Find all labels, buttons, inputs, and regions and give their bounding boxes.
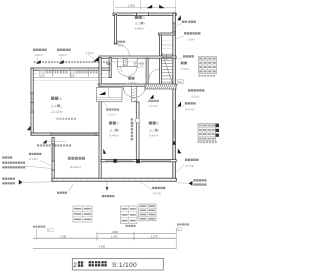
svg-text:W913: W913 xyxy=(117,44,124,47)
svg-text:1.140: 1.140 xyxy=(60,234,67,238)
arrow right parapet xyxy=(178,148,182,153)
annotation: parapet wall right bottom xyxy=(189,181,193,186)
legend table bottom-center xyxy=(121,206,138,224)
stair treads xyxy=(161,53,173,55)
svg-text:R:1700: R:1700 xyxy=(29,158,38,161)
wall: stair west xyxy=(159,35,161,85)
balcony drain leader left xyxy=(68,184,73,191)
annotation: wall type left bottom xyxy=(2,178,4,180)
wall: room D west xyxy=(115,15,117,45)
wall: hall south / rooms C-B north xyxy=(99,84,176,86)
leader arrow 1 xyxy=(36,60,41,64)
wall: divider rooms C/B xyxy=(136,102,139,162)
svg-text:4.100: 4.100 xyxy=(99,244,106,248)
storage door arcs xyxy=(123,87,134,98)
balcony south parapet wall xyxy=(52,178,176,181)
svg-text:1.37m²: 1.37m² xyxy=(128,81,136,85)
room D label xyxy=(135,16,138,19)
leader arrow 2 xyxy=(59,60,64,64)
stair diagonal xyxy=(162,53,173,84)
svg-text:S:1/100: S:1/100 xyxy=(112,262,137,269)
top dimension arrow left xyxy=(147,5,152,9)
void label in plan xyxy=(148,100,150,102)
storage hatched strip xyxy=(123,59,127,66)
annotation: emergency entry 3 lines xyxy=(2,156,4,158)
closet label in C xyxy=(106,108,108,110)
dark cells right of lower table xyxy=(216,124,219,128)
bottom dim text left xyxy=(33,226,35,228)
stair up arrow line xyxy=(166,54,168,60)
caption under upper table xyxy=(199,75,201,77)
svg-text:): ) xyxy=(61,104,62,108)
wall: closet north (between D and closet) xyxy=(159,33,176,35)
svg-text:(5.2: (5.2 xyxy=(135,22,141,26)
wall: hall west stub xyxy=(109,58,111,78)
hatched wall band south of stairs xyxy=(145,84,176,89)
annotation: wooden rail xyxy=(183,55,185,57)
closet divider line xyxy=(161,44,173,46)
room A label xyxy=(51,97,54,100)
grid table lower right xyxy=(198,123,215,141)
stair closet shelf line xyxy=(162,40,174,42)
arrow near A south wall xyxy=(43,140,47,144)
stair closet hatched strip xyxy=(160,36,162,49)
annotation: sash R1700 right xyxy=(185,159,187,161)
svg-text:2: 2 xyxy=(73,262,77,269)
hanger pipe dashed line below closet xyxy=(34,79,98,81)
annotation: closet upper right xyxy=(184,32,186,34)
stair count box xyxy=(177,80,183,84)
D storage double door arcs xyxy=(118,67,128,77)
wall: room A south with window xyxy=(31,133,99,135)
top dimension arrow right xyxy=(159,5,164,9)
dimension line 1 xyxy=(33,237,176,239)
spec text row inside closet band xyxy=(46,71,48,73)
room C label xyxy=(109,121,112,124)
annotation: drain left xyxy=(57,192,59,194)
svg-text:1.820: 1.820 xyxy=(128,4,136,8)
balcony downpipe leader xyxy=(106,182,108,190)
closet label top-left 1 xyxy=(33,49,35,51)
extension line top-center xyxy=(140,0,142,10)
svg-text:1.82m²: 1.82m² xyxy=(35,53,43,57)
balcony label xyxy=(68,157,71,160)
door post marks room D west xyxy=(114,43,118,45)
svg-text:R:1700: R:1700 xyxy=(186,164,195,168)
circled mark on divider wall xyxy=(135,118,140,123)
closet band dividers xyxy=(52,68,54,77)
closet band bottom line xyxy=(33,76,109,78)
wall: monoiri east stub xyxy=(146,58,148,85)
svg-text:13R: 13R xyxy=(178,82,183,84)
title box xyxy=(72,258,163,270)
wall: right outer (east) xyxy=(173,13,175,181)
vertical tiny text along divider xyxy=(131,122,133,124)
svg-text:1.820: 1.820 xyxy=(112,230,119,234)
text right wall top dim xyxy=(198,141,200,143)
svg-text:1.36m²: 1.36m² xyxy=(187,37,195,41)
svg-text:5.46m²: 5.46m² xyxy=(86,51,95,55)
annotation: downpipe xyxy=(37,144,39,146)
closet label leader xyxy=(103,102,108,109)
annotation: downpipe bottom xyxy=(102,195,104,197)
hall tiny label xyxy=(107,63,109,65)
svg-text:(5.2: (5.2 xyxy=(149,129,154,133)
legend table bottom-right xyxy=(139,204,156,221)
vertical label on C/B divider xyxy=(131,118,133,120)
extension line top-right xyxy=(175,0,177,13)
leader arrow to hall wall xyxy=(93,57,99,62)
balcony west parapet wall xyxy=(52,137,54,181)
door arc into room D xyxy=(117,44,130,57)
storage shelf label in D xyxy=(117,41,119,43)
svg-text:): ) xyxy=(158,129,159,133)
annotation: handrail R1700 xyxy=(185,102,187,104)
text under center table xyxy=(126,225,128,227)
svg-text:(6.42m²): (6.42m²) xyxy=(70,165,81,169)
door arc hall to room A xyxy=(111,61,121,72)
svg-text:R=1700: R=1700 xyxy=(149,105,158,108)
svg-text:(5.2: (5.2 xyxy=(110,129,115,133)
svg-text:(7.4: (7.4 xyxy=(51,104,57,108)
svg-text:R:1700: R:1700 xyxy=(153,193,162,196)
legend table bottom-left xyxy=(73,206,92,222)
svg-text:): ) xyxy=(119,129,120,133)
storage stub wall hatched xyxy=(132,86,137,101)
closet label top-left 2 xyxy=(57,49,59,51)
door arc hall to stairs xyxy=(149,69,159,78)
svg-text:2.275: 2.275 xyxy=(151,235,158,239)
bottom dim text right xyxy=(177,223,179,225)
wall: room A west with window xyxy=(31,68,33,135)
section mark 9-9 xyxy=(134,62,137,65)
room B label xyxy=(149,121,152,124)
svg-text:1.82m²: 1.82m² xyxy=(59,53,67,57)
svg-text:8.48m²: 8.48m² xyxy=(110,134,119,138)
spec text row above C closet xyxy=(98,83,100,85)
wall: room D north (top) with windows xyxy=(113,13,176,15)
svg-text:6.62m²: 6.62m² xyxy=(191,95,199,99)
grid table upper right xyxy=(198,56,216,73)
extension line top-left of room D xyxy=(112,0,114,13)
spec text row above A north wall xyxy=(34,61,36,63)
wall: rooms C/B south with windows xyxy=(101,160,176,162)
svg-text:0.82m²: 0.82m² xyxy=(108,114,116,117)
svg-text:8.48m²: 8.48m² xyxy=(135,27,144,31)
svg-text:S=1/50: S=1/50 xyxy=(137,67,144,69)
svg-text:12.42m²: 12.42m² xyxy=(51,110,63,114)
arrow left wall corner xyxy=(27,126,30,130)
wall: room A north (closet band top) xyxy=(31,68,109,70)
dark window post right xyxy=(136,159,140,163)
annotation: sash 335 left xyxy=(29,153,31,155)
room D storage shelf xyxy=(117,58,137,66)
svg-text:1.04m²: 1.04m² xyxy=(181,67,189,71)
top dimension line xyxy=(115,6,176,8)
arrow near room C west wall xyxy=(103,149,106,154)
svg-text:): ) xyxy=(144,22,145,26)
svg-text:8.48m²: 8.48m² xyxy=(149,134,158,138)
annotation: stairs label xyxy=(181,62,184,65)
dim arrow right wall upper xyxy=(172,140,176,145)
closet in room C xyxy=(96,87,122,101)
svg-text:R=1700: R=1700 xyxy=(185,107,195,111)
annotation: sash R1700 center-bottom xyxy=(152,187,154,189)
dark futon mark in closet xyxy=(99,92,106,96)
storage label monoiri xyxy=(128,77,131,80)
annotation: pipe shelf xyxy=(182,21,184,23)
closet band interior marks xyxy=(33,73,109,75)
svg-text:1.225: 1.225 xyxy=(111,234,118,238)
arrow mid right xyxy=(177,102,181,107)
annotation inside room A xyxy=(57,118,59,120)
wall: hall north / room D south xyxy=(99,56,176,58)
void arrow in plan xyxy=(150,94,154,98)
wall: vertical between A/balcony and rooms C xyxy=(99,58,101,181)
dark window post left xyxy=(113,159,116,163)
arrow top right xyxy=(177,15,181,20)
dimension line 2 xyxy=(33,248,176,250)
annotation: closet mid right xyxy=(188,89,190,91)
short dimension line upper xyxy=(97,233,176,235)
